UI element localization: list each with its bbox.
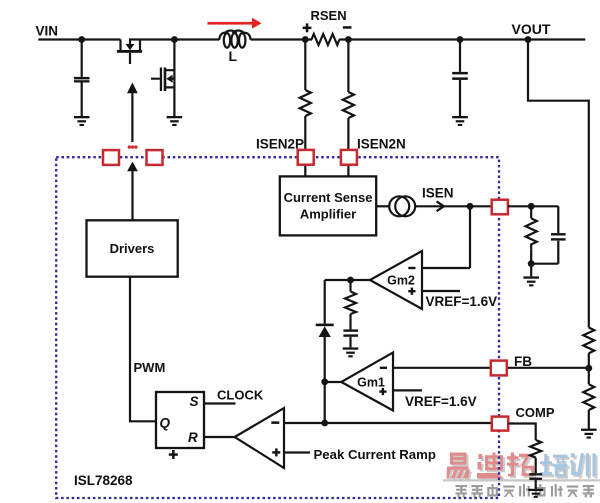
wire driver arrow into pins (127, 162, 138, 221)
svg-text:ISEN2N: ISEN2N (357, 137, 406, 152)
ground COMP comp (528, 489, 543, 498)
pin gate drive square 2 (147, 150, 163, 165)
capacitor COMP comp (529, 458, 542, 489)
IC boundary dashed box ISL78268 (56, 157, 499, 498)
op-amp Gm1 (341, 353, 589, 411)
resistor divider upper (583, 328, 594, 354)
resistor Gm2 comp (345, 280, 356, 329)
wire ISEN with arrowhead (415, 201, 492, 211)
wire R input (204, 436, 235, 438)
pin ISEN2N square (341, 150, 357, 165)
flip-flop latch (156, 392, 204, 448)
ground input cap (74, 116, 90, 126)
svg-text:Amplifier: Amplifier (300, 207, 356, 222)
wire Gm2 output (325, 279, 370, 281)
transistor Q2 low-side MOSFET (151, 40, 174, 117)
diode D1 (316, 280, 334, 382)
capacitor Gm2 comp (343, 329, 358, 347)
wire top rail (38, 38, 585, 40)
wire ISEN to Gm2 minus (422, 206, 470, 268)
transistor Q1 high-side MOSFET (117, 40, 142, 65)
ground ISEN network (523, 264, 539, 287)
svg-text:RSEN: RSEN (311, 8, 347, 23)
svg-text:COMP: COMP (516, 405, 555, 420)
pin ISEN square (492, 200, 508, 215)
svg-text:FB: FB (514, 354, 532, 369)
pin ISEN2P square (298, 150, 314, 165)
resistor sense right (343, 40, 354, 151)
pin FB square (491, 361, 507, 376)
capacitor input CIN (74, 40, 90, 117)
svg-text:Gm2: Gm2 (387, 274, 415, 288)
svg-text:CLOCK: CLOCK (217, 388, 264, 403)
svg-text:VREF=1.6V: VREF=1.6V (405, 394, 477, 409)
current source symbol (389, 196, 415, 216)
svg-text:VIN: VIN (36, 24, 59, 39)
op-amp Gm2 (370, 251, 460, 309)
resistor RSEN (312, 34, 340, 45)
wire ISEN2N pin to CSA (347, 165, 349, 177)
ellipsis red dots (128, 145, 138, 148)
current direction arrow (red) (208, 18, 262, 29)
ground output cap (452, 116, 468, 126)
wire COMP external (508, 424, 535, 441)
svg-text:Drivers: Drivers (110, 241, 155, 256)
wire divider mid (588, 353, 590, 384)
wire PWM (130, 277, 156, 422)
polarity plus sign (303, 23, 312, 32)
svg-text:ISL78268: ISL78268 (74, 473, 133, 488)
wire S clock input (204, 402, 236, 404)
capacitor ISEN filter (531, 206, 565, 263)
wire Gm1 output (325, 382, 342, 423)
svg-text:Peak Current Ramp: Peak Current Ramp (314, 447, 436, 462)
resistor sense left (300, 40, 311, 151)
wire VOUT feedback jog (528, 40, 589, 328)
plus sign below latch (169, 450, 178, 459)
capacitor output COUT (452, 40, 468, 117)
ground Gm2 comp (343, 347, 359, 357)
block Current Sense Amplifier (280, 176, 376, 235)
svg-text:VOUT: VOUT (512, 21, 551, 37)
block Drivers (87, 220, 178, 276)
wire ISEN external (508, 205, 558, 207)
svg-text:ISEN: ISEN (422, 186, 454, 201)
comparator U1 (235, 408, 492, 468)
pin gate drive square 1 (103, 150, 119, 165)
svg-text:PWM: PWM (134, 360, 166, 375)
wire gate drive upper arrow (127, 83, 138, 143)
ground Q2 source (167, 116, 183, 126)
resistor COMP comp (530, 440, 541, 458)
wire ISEN2P pin to CSA (304, 165, 306, 177)
svg-text:VREF=1.6V: VREF=1.6V (426, 294, 498, 309)
ground divider (581, 410, 597, 439)
svg-text:Gm1: Gm1 (357, 376, 385, 390)
resistor divider lower (583, 384, 594, 410)
svg-text:Current Sense: Current Sense (284, 190, 373, 205)
svg-text:S: S (190, 394, 199, 409)
pin COMP square (492, 417, 508, 431)
inductor L (219, 31, 250, 48)
resistor ISEN load (526, 206, 537, 263)
svg-text:R: R (188, 430, 198, 445)
svg-text:Q: Q (160, 416, 171, 431)
polarity minus sign (343, 26, 352, 29)
wire CSA output (376, 205, 389, 207)
svg-text:L: L (229, 48, 238, 64)
